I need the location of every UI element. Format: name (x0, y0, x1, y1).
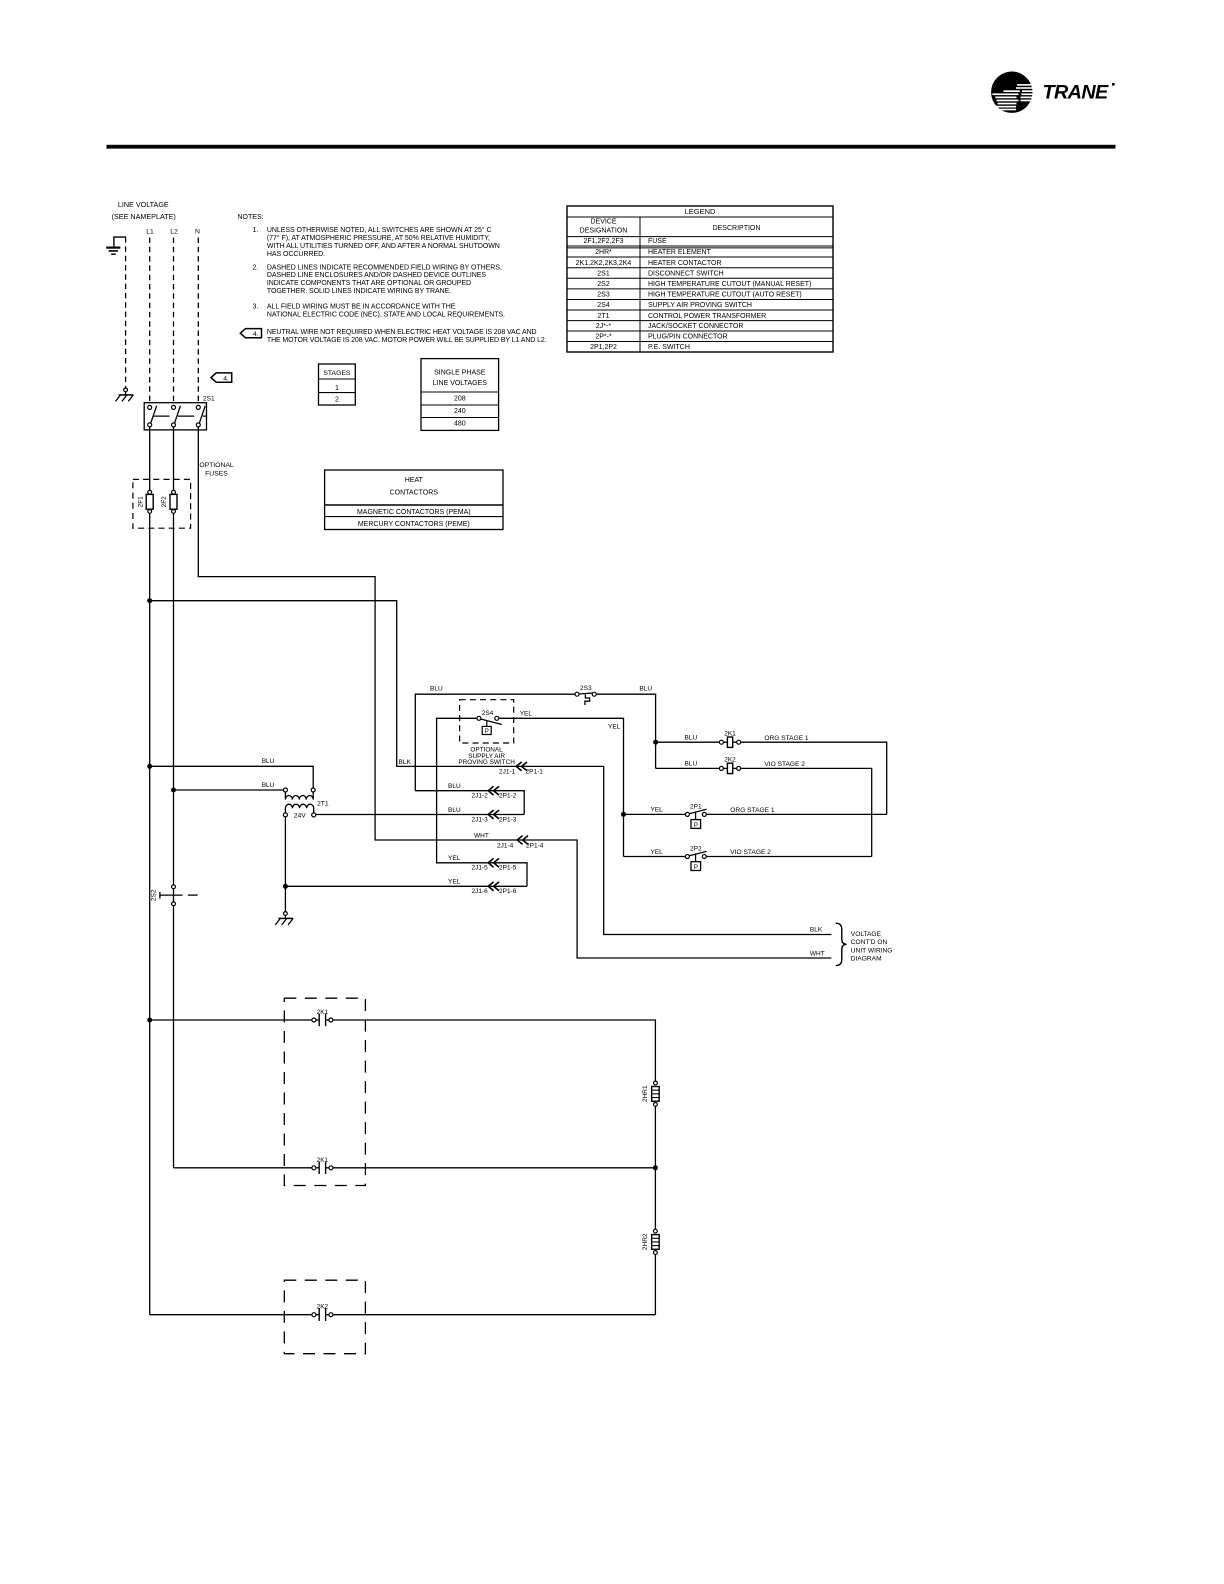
svg-text:YEL: YEL (448, 855, 461, 862)
svg-text:2F1,2F2,2F3: 2F1,2F2,2F3 (583, 238, 623, 245)
svg-text:2P1-5: 2P1-5 (499, 865, 517, 872)
svg-text:LINE VOLTAGES: LINE VOLTAGES (433, 380, 488, 387)
high temperature cutout 2S3 (575, 685, 596, 705)
high temperature cutout 2S2 (manual reset) (150, 885, 197, 906)
wire BLU 2S3 to coil feeder (596, 694, 655, 768)
svg-text:VIO STAGE 2: VIO STAGE 2 (730, 849, 771, 856)
svg-text:MERCURY CONTACTORS (PEME): MERCURY CONTACTORS (PEME) (358, 521, 470, 528)
supply air proving switch 2S4 (460, 700, 514, 743)
svg-text:CONT'D ON: CONT'D ON (851, 939, 888, 946)
svg-text:4.: 4. (223, 375, 229, 382)
wire L2 vertical (173, 427, 175, 490)
svg-text:2S4: 2S4 (597, 302, 610, 309)
svg-text:ALL FIELD WIRING MUST BE IN AC: ALL FIELD WIRING MUST BE IN ACCORDANCE W… (267, 303, 456, 310)
svg-text:OPTIONAL: OPTIONAL (199, 462, 234, 469)
connector 2J1-3 / 2P1-3 (488, 810, 499, 819)
svg-text:2P1-1: 2P1-1 (526, 768, 544, 775)
svg-text:TRANE: TRANE (1043, 82, 1110, 104)
wire BLU 2J1-2 up and right to 2S3 (415, 694, 575, 791)
svg-text:MAGNETIC CONTACTORS (PEMA): MAGNETIC CONTACTORS (PEMA) (357, 509, 471, 516)
svg-text:2S4: 2S4 (482, 710, 494, 717)
svg-text:2S3: 2S3 (580, 685, 592, 692)
node L1/BLK junction (147, 598, 152, 603)
connector 2J1-5 / 2P1-5 (488, 858, 499, 867)
svg-text:N: N (195, 228, 200, 235)
wire junction to heater 2HR2 (654, 1168, 656, 1229)
svg-text:DASHED LINES INDICATE RECOMMEN: DASHED LINES INDICATE RECOMMENDED FIELD … (267, 264, 502, 271)
svg-text:BLU: BLU (262, 782, 275, 789)
heater element 2HR2 (654, 1229, 658, 1233)
svg-text:NOTES:: NOTES: (238, 214, 264, 221)
svg-text:YEL: YEL (520, 711, 533, 718)
svg-text:VOLTAGE: VOLTAGE (851, 931, 882, 938)
heat contactors table (325, 470, 503, 530)
wire 2HR1 to junction (654, 1106, 656, 1168)
wire 2K2 coil to VIO stage loop (741, 768, 872, 856)
wire 2J1-2 row with jumper to 2J1-3 (415, 791, 524, 815)
single phase line voltages table (421, 359, 499, 431)
svg-text:2K1,2K2,2K3,2K4: 2K1,2K2,2K3,2K4 (576, 260, 632, 267)
svg-text:2P1,2P2: 2P1,2P2 (590, 344, 617, 351)
svg-text:YEL: YEL (448, 879, 461, 886)
fuse 2F1 (148, 490, 152, 494)
contact 2K1 (first) (312, 1018, 316, 1022)
svg-text:(77° F), AT ATMOSPHERIC PRESSU: (77° F), AT ATMOSPHERIC PRESSURE, AT 50%… (267, 234, 490, 242)
svg-text:2HR*: 2HR* (595, 249, 612, 256)
node coil feeder / 2K1 row (653, 740, 658, 745)
svg-text:DIAGRAM: DIAGRAM (851, 956, 882, 963)
wire YEL to 2P1 (624, 813, 686, 815)
wire BLU L1 to transformer primary right (150, 766, 314, 788)
svg-text:DEVICE: DEVICE (590, 219, 616, 226)
wire L1 branch to BLK row (150, 601, 832, 935)
brace (836, 923, 847, 965)
optional fuses dashed box (133, 479, 191, 528)
svg-text:2J*-*: 2J*-* (596, 323, 611, 330)
svg-text:1: 1 (335, 385, 339, 392)
svg-text:(SEE NAMEPLATE): (SEE NAMEPLATE) (112, 212, 176, 221)
svg-text:HEAT: HEAT (405, 477, 424, 484)
wire 2K1 coil to ORG stage loop (741, 742, 887, 814)
svg-text:NATIONAL ELECTRIC CODE (NEC),: NATIONAL ELECTRIC CODE (NEC), STATE AND … (267, 311, 505, 318)
svg-text:2K2: 2K2 (317, 1304, 329, 1311)
svg-text:2J1-2: 2J1-2 (472, 793, 489, 800)
svg-text:YEL: YEL (651, 807, 664, 814)
svg-text:HAS OCCURRED.: HAS OCCURRED. (267, 251, 325, 258)
disconnect switch 2S1 (144, 396, 215, 430)
svg-text:ORG STAGE 1: ORG STAGE 1 (730, 807, 775, 814)
wire row1 to heater 2HR1 (333, 1020, 656, 1081)
svg-text:BLU: BLU (685, 761, 698, 768)
transformer 2T1 (283, 788, 329, 820)
wire: ground dashed (125, 237, 127, 388)
contact 2K1 (second) (312, 1166, 316, 1170)
svg-text:YEL: YEL (651, 849, 664, 856)
wire transformer secondary left to ground (284, 817, 286, 912)
svg-text:2P1-3: 2P1-3 (499, 816, 517, 823)
svg-text:2F1: 2F1 (137, 496, 144, 508)
node secondary/2J1-6 junction (283, 884, 288, 889)
svg-text:NEUTRAL WIRE NOT REQUIRED WHEN: NEUTRAL WIRE NOT REQUIRED WHEN ELECTRIC … (267, 329, 537, 336)
svg-text:LEGEND: LEGEND (685, 207, 716, 216)
svg-text:2S2: 2S2 (150, 889, 157, 901)
svg-text:BLK: BLK (399, 759, 412, 766)
wire 2K1 row2 (176, 1167, 312, 1169)
svg-text:480: 480 (454, 421, 466, 428)
svg-text:CONTROL POWER TRANSFORMER: CONTROL POWER TRANSFORMER (648, 313, 766, 320)
svg-text:BLK: BLK (810, 927, 823, 934)
svg-text:BLU: BLU (262, 758, 275, 765)
svg-text:208: 208 (454, 396, 466, 403)
svg-text:2K2: 2K2 (724, 757, 736, 764)
svg-text:2K1: 2K1 (317, 1009, 329, 1016)
svg-text:WITH ALL UTILITIES TURNED OFF,: WITH ALL UTILITIES TURNED OFF, AND AFTER… (267, 243, 500, 250)
svg-text:HIGH TEMPERATURE CUTOUT (MANUA: HIGH TEMPERATURE CUTOUT (MANUAL RESET) (648, 281, 811, 288)
svg-text:BLU: BLU (430, 686, 443, 693)
wire BLU L2 to transformer primary left (176, 789, 284, 791)
svg-text:2J1-4: 2J1-4 (497, 842, 514, 849)
svg-text:2S1: 2S1 (597, 270, 610, 277)
svg-text:2T1: 2T1 (317, 801, 329, 808)
svg-text:2J1-6: 2J1-6 (472, 888, 489, 895)
svg-text:YEL: YEL (608, 723, 621, 730)
wire YEL to 2P2 (624, 856, 686, 858)
svg-text:BLU: BLU (685, 735, 698, 742)
dashed box 2K1 contacts (284, 998, 365, 1185)
svg-text:BLU: BLU (639, 686, 652, 693)
svg-text:DESCRIPTION: DESCRIPTION (713, 225, 761, 232)
svg-text:P.E. SWITCH: P.E. SWITCH (648, 344, 690, 351)
node L1 / 2K1 row1 junction (147, 1018, 152, 1023)
wire L1 vertical (149, 427, 151, 490)
svg-text:3.: 3. (253, 303, 259, 310)
P.E. switch 2P1 (685, 804, 706, 829)
svg-text:2J1-3: 2J1-3 (472, 816, 489, 823)
svg-text:DISCONNECT SWITCH: DISCONNECT SWITCH (648, 270, 724, 277)
svg-text:BLU: BLU (448, 783, 461, 790)
svg-text:2J1-1: 2J1-1 (499, 768, 516, 775)
svg-text:DASHED LINE ENCLOSURES AND/OR: DASHED LINE ENCLOSURES AND/OR DASHED DEV… (267, 272, 486, 279)
svg-text:2P1-4: 2P1-4 (526, 842, 544, 849)
svg-text:2HR2: 2HR2 (642, 1233, 649, 1250)
svg-text:ORG STAGE 1: ORG STAGE 1 (764, 735, 809, 742)
svg-text:2K1: 2K1 (317, 1157, 329, 1164)
legend table (567, 206, 833, 352)
connector 2J1-2 / 2P1-2 (488, 786, 499, 795)
svg-text:2J1-5: 2J1-5 (472, 865, 489, 872)
svg-text:TOGETHER. SOLID LINES INDICAT: TOGETHER. SOLID LINES INDICATE WIRING BY… (267, 288, 451, 295)
svg-text:UNLESS OTHERWISE NOTED, ALL SW: UNLESS OTHERWISE NOTED, ALL SWITCHES ARE… (267, 226, 492, 234)
P.E. switch 2P2 (685, 846, 706, 871)
svg-text:24V: 24V (294, 813, 307, 820)
top rule (107, 145, 1116, 149)
wire 2J1-3 row from transformer (316, 814, 525, 816)
svg-text:2F2: 2F2 (161, 496, 168, 508)
Trane logo (991, 72, 1115, 113)
chassis ground under transformer (284, 912, 288, 916)
connector 2J1-1 / 2P1-1 (516, 762, 527, 771)
svg-text:240: 240 (454, 408, 466, 415)
connector 2J1-6 / 2P1-6 (488, 882, 499, 891)
svg-text:HEATER CONTACTOR: HEATER CONTACTOR (648, 260, 722, 267)
svg-text:2: 2 (335, 396, 339, 403)
svg-text:2HR1: 2HR1 (642, 1085, 649, 1102)
wire 2P1 to right loop (706, 813, 886, 815)
svg-text:2P1-2: 2P1-2 (499, 793, 517, 800)
chassis ground (service) (124, 388, 128, 392)
wire L1 dashed (149, 238, 151, 406)
wire 2K2 row (150, 1314, 312, 1316)
svg-text:FUSES: FUSES (205, 470, 228, 477)
wire 2P2 to right loop (706, 856, 871, 858)
note flag 4 in notes (240, 329, 261, 338)
svg-text:INDICATE COMPONENTS THAT ARE O: INDICATE COMPONENTS THAT ARE OPTIONAL OR… (267, 280, 471, 287)
svg-text:2.: 2. (253, 264, 259, 271)
svg-text:PLUG/PIN CONNECTOR: PLUG/PIN CONNECTOR (648, 334, 728, 341)
wire 2S4-left down to 2J1-5 row (437, 718, 527, 886)
svg-text:2S2: 2S2 (597, 281, 610, 288)
svg-text:WHT: WHT (810, 950, 825, 957)
svg-text:L2: L2 (170, 228, 178, 235)
svg-text:P: P (694, 864, 698, 871)
svg-text:FUSE: FUSE (648, 238, 667, 245)
wire N dashed (197, 238, 199, 406)
svg-text:P: P (694, 822, 698, 829)
connector 2J1-4 / 2P1-4 (517, 836, 528, 845)
svg-text:LINE VOLTAGE: LINE VOLTAGE (118, 200, 169, 209)
svg-text:PROVING SWITCH: PROVING SWITCH (458, 759, 515, 766)
svg-text:SINGLE PHASE: SINGLE PHASE (434, 370, 486, 377)
dashed box 2K2 contact (284, 1280, 365, 1354)
note flag 4 near N (211, 373, 232, 382)
wire 2HR2 down to 2K2 row (654, 1255, 656, 1315)
svg-text:JACK/SOCKET CONNECTOR: JACK/SOCKET CONNECTOR (648, 323, 743, 330)
svg-text:2S3: 2S3 (597, 292, 610, 299)
stages table (319, 364, 356, 405)
svg-text:2K1: 2K1 (724, 730, 736, 737)
svg-text:1.: 1. (253, 227, 259, 234)
contactor coil 2K1 (656, 741, 720, 743)
node YEL/2P1 junction (621, 812, 626, 817)
svg-text:2S1: 2S1 (203, 396, 215, 403)
svg-text:2T1: 2T1 (597, 313, 609, 320)
svg-text:2P1-6: 2P1-6 (499, 888, 517, 895)
svg-text:HEATER ELEMENT: HEATER ELEMENT (648, 249, 712, 256)
wire YEL from 2S4 down to 2P rows (499, 718, 624, 856)
svg-text:BLU: BLU (448, 807, 461, 814)
earth ground (114, 237, 126, 247)
svg-text:L1: L1 (146, 228, 154, 235)
svg-text:DESIGNATION: DESIGNATION (580, 228, 628, 235)
svg-text:2P1: 2P1 (690, 804, 702, 811)
fuse 2F2 (172, 490, 176, 494)
svg-text:P: P (485, 728, 489, 735)
wire 2K1 row1 (150, 1019, 312, 1021)
svg-text:THE MOTOR VOLTAGE IS 208 VAC.: THE MOTOR VOLTAGE IS 208 VAC. MOTOR POWE… (267, 337, 547, 344)
wire L2 dashed (173, 238, 175, 406)
svg-text:2P2: 2P2 (690, 846, 702, 853)
svg-text:4.: 4. (253, 331, 259, 338)
svg-text:2P*-*: 2P*-* (595, 334, 612, 341)
heater element 2HR1 (654, 1081, 658, 1085)
svg-text:STAGES: STAGES (323, 370, 351, 377)
wire N path to WHT row (198, 427, 831, 958)
node heater chain junction (653, 1165, 658, 1170)
contactor coil 2K2 (656, 767, 720, 769)
svg-text:HIGH TEMPERATURE CUTOUT (AUTO: HIGH TEMPERATURE CUTOUT (AUTO RESET) (648, 292, 802, 299)
svg-text:UNIT WIRING: UNIT WIRING (851, 947, 893, 954)
svg-text:WHT: WHT (474, 833, 489, 840)
wire 2J1-6 row to transformer common (285, 885, 527, 887)
svg-text:CONTACTORS: CONTACTORS (390, 490, 439, 497)
contact 2K2 (312, 1313, 316, 1317)
svg-text:VIO STAGE 2: VIO STAGE 2 (764, 761, 805, 768)
svg-text:SUPPLY AIR PROVING SWITCH: SUPPLY AIR PROVING SWITCH (648, 302, 752, 309)
